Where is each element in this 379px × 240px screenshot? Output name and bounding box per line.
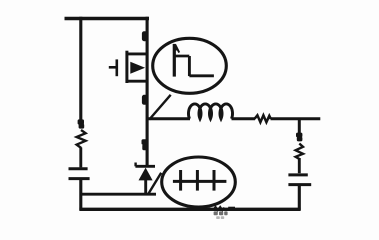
label blob on resistor R3 — [296, 133, 302, 142]
wire R2 to output node — [271, 117, 321, 120]
callout ellipse ripple bubble — [162, 157, 236, 207]
ripple plus marks inside bubble — [173, 170, 227, 191]
pin marker drain — [142, 31, 147, 41]
resistor R3 — [296, 144, 303, 160]
label fuzz dash on ground bus right — [228, 207, 235, 210]
resistor R1 — [77, 130, 86, 148]
wire ground bottom bus — [79, 208, 300, 211]
capacitor C1 — [69, 169, 90, 179]
capacitor C2 — [288, 175, 311, 185]
wire R1 to C1 — [79, 148, 82, 168]
label fuzz on ground bus — [213, 207, 224, 210]
wire middle return (C1 to diode anode) — [81, 193, 156, 196]
diode D1 — [135, 163, 155, 195]
wire switch node — [146, 117, 190, 120]
waveform step trace inside bubble — [174, 44, 214, 77]
wire left input rail — [79, 17, 82, 120]
pin marker source — [142, 95, 147, 105]
inductor L1 — [188, 104, 232, 119]
callout pointer line to diode node — [148, 173, 161, 194]
transistor Q1 MOSFET — [109, 51, 148, 83]
callout ellipse U1 waveform bubble — [153, 38, 227, 93]
wire drain-source column — [146, 17, 149, 166]
label fuzz text under ground bus — [214, 211, 228, 215]
pin marker above diode D1 — [142, 139, 148, 150]
label blob on resistor R1 — [78, 119, 85, 128]
wire top supply bus — [65, 17, 150, 20]
label fuzz faint second row — [216, 216, 224, 219]
wire C2 down to ground bus — [298, 186, 301, 210]
callout pointer line to switch node — [149, 95, 170, 120]
wire R3 to C2 — [298, 158, 301, 173]
wire L1 to R2 — [232, 117, 256, 120]
resistor R2 — [255, 115, 271, 122]
wire C1 down to ground bus — [79, 180, 82, 210]
wire output branch down — [298, 119, 301, 134]
